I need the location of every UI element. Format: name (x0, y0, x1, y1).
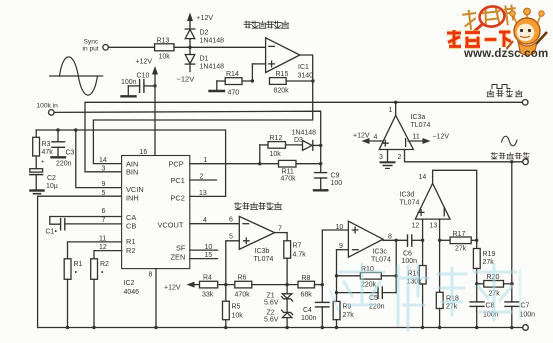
svg-text:R5: R5 (232, 304, 241, 311)
wire R13 to diode node and IC1 inverting input (174, 46, 266, 49)
svg-text:27k: 27k (455, 246, 467, 253)
wire R8 node up to IC3c pin 10 (322, 224, 348, 285)
logo mascot (507, 8, 548, 55)
IC3d pin 12 wire (412, 219, 425, 265)
svg-text:12: 12 (412, 223, 420, 230)
svg-text:C9: C9 (331, 173, 340, 180)
op-amp IC3d TL074 (400, 183, 451, 219)
label 对称方波形成 (235, 203, 282, 210)
svg-text:10k: 10k (159, 54, 171, 61)
square wave glyph (492, 85, 510, 89)
svg-text:1: 1 (204, 157, 208, 164)
logo 找芯片 (top right) (462, 4, 518, 30)
diode D2 1N4148 (185, 29, 224, 47)
label 正弦波输出 (491, 153, 529, 159)
svg-text:470k: 470k (235, 292, 251, 299)
svg-text:C7: C7 (521, 303, 530, 310)
svg-text:R7: R7 (293, 243, 302, 250)
svg-text:PC1: PC1 (171, 176, 185, 185)
svg-text:9: 9 (102, 181, 106, 188)
svg-text:R15: R15 (276, 71, 289, 78)
svg-text:IC1: IC1 (298, 64, 309, 71)
svg-text:INH: INH (126, 193, 139, 202)
svg-text:VCOUT: VCOUT (158, 220, 184, 229)
svg-text:R19: R19 (483, 251, 496, 258)
svg-text:R1: R1 (126, 237, 135, 246)
svg-text:IC3a: IC3a (411, 114, 426, 121)
IC3c output pin 8 wire (383, 234, 407, 243)
svg-text:1: 1 (389, 107, 393, 114)
IC3b pin 5 wire down to R4/R6 node (226, 241, 240, 285)
svg-text:220n: 220n (56, 161, 72, 168)
filter line PC2 to R3/C3 (36, 130, 225, 196)
svg-text:Sync: Sync (84, 39, 99, 46)
svg-text:1N4148: 1N4148 (292, 130, 317, 137)
wire INH down to bottom rail (38, 196, 122, 327)
svg-text:C10: C10 (137, 73, 150, 80)
terminal 100k in (37, 103, 59, 116)
svg-text:SF: SF (176, 243, 186, 252)
terminal Sync input (83, 39, 109, 53)
PC1 stub pin 2 (190, 179, 217, 181)
resistor R12 10k (260, 135, 302, 164)
sine input symbol (50, 57, 103, 95)
square-wave output line (IC3a out / BIN / terminal) (85, 101, 522, 172)
svg-text:7: 7 (278, 226, 282, 233)
svg-text:470: 470 (228, 90, 240, 97)
svg-text:10k: 10k (232, 313, 244, 320)
pin number labels (left side of IC2) (99, 157, 107, 251)
IC3d pin 13 wire (430, 219, 442, 292)
svg-text:5: 5 (229, 234, 233, 241)
resistor R15 820k (270, 71, 315, 95)
+12V supply arrow (top) (187, 13, 213, 40)
svg-text:R1: R1 (74, 261, 83, 268)
svg-text:CB: CB (126, 221, 136, 230)
capacitor C1* on CA/CB (46, 217, 122, 236)
svg-text:C6: C6 (403, 251, 412, 258)
svg-text:13: 13 (430, 223, 438, 230)
svg-text:−12V: −12V (177, 75, 195, 84)
resistor R14 470 (210, 71, 253, 97)
logo 维库一下 (red) (447, 30, 511, 47)
svg-text:100k in: 100k in (37, 103, 59, 110)
wire VCIN to filter node (74, 128, 121, 187)
resistor R13 (155, 38, 174, 61)
svg-text:14: 14 (419, 174, 427, 181)
svg-text:27k: 27k (343, 312, 355, 319)
IC3b output pin 7 wire (275, 226, 288, 241)
svg-text:R14: R14 (226, 71, 239, 78)
svg-text:D3: D3 (294, 137, 303, 144)
svg-text:100n: 100n (301, 315, 317, 322)
svg-text:47k: 47k (42, 149, 54, 156)
IC3d pin 14 loop to R17 right (419, 170, 477, 240)
resistor R8 68k (298, 275, 324, 299)
svg-text:+12V: +12V (353, 133, 370, 140)
op-amp IC3c TL074 (348, 221, 391, 263)
resistor R19 27k (473, 240, 495, 301)
svg-text:PC2: PC2 (171, 193, 185, 202)
terminal square wave output (522, 100, 528, 106)
capacitor C10 100n (121, 73, 155, 97)
svg-text:PCP: PCP (169, 159, 184, 168)
op-amp IC1 3140 (266, 38, 314, 80)
svg-text:100: 100 (331, 180, 343, 187)
svg-text:10μ: 10μ (46, 183, 58, 190)
op-amp IC3b TL074 (229, 216, 275, 263)
svg-text:3140: 3140 (298, 73, 314, 80)
label 输入方波形成 (244, 21, 289, 28)
svg-text:TL074: TL074 (400, 200, 420, 207)
svg-text:R2: R2 (100, 261, 109, 268)
capacitor C7 100n (505, 302, 535, 329)
IC3a pin 2 wire / sine output line (398, 150, 523, 164)
svg-text:4: 4 (203, 217, 207, 224)
IC3a pin 4 +12V arrow (353, 133, 383, 145)
wire sync to R13 (108, 46, 154, 48)
zener Z2 5.6V (264, 299, 293, 329)
resistor R7 4.7k (284, 241, 306, 286)
sine glyph (502, 136, 518, 146)
svg-text:R2: R2 (126, 246, 135, 255)
svg-text:R11: R11 (282, 169, 294, 176)
resistor R17 27k (440, 231, 479, 253)
svg-text:100n: 100n (520, 312, 536, 319)
svg-text:in put: in put (83, 46, 99, 53)
svg-text:8: 8 (149, 272, 153, 279)
svg-text:5: 5 (102, 190, 106, 197)
logo magnifier ring (474, 5, 506, 32)
op-amp IC3a TL074 (379, 102, 430, 149)
svg-text:Z2: Z2 (267, 310, 275, 317)
wire 100k-in line to D3/R11/C9 node (54, 111, 321, 145)
svg-text:R13: R13 (157, 38, 170, 45)
svg-text:C4: C4 (303, 307, 312, 314)
+12V arrow (R4 left) (164, 282, 200, 292)
svg-text:BIN: BIN (126, 168, 138, 177)
resistor R18 27k (436, 292, 459, 329)
wire IC1 output down to BIN feedback line (93, 55, 312, 164)
svg-text:470k: 470k (281, 176, 297, 183)
capacitor C6 100n (402, 235, 423, 265)
svg-text:4046: 4046 (124, 289, 140, 296)
svg-text:−12V: −12V (433, 134, 450, 141)
+12V supply arrow (C10 node) (136, 59, 159, 156)
svg-text:TL074: TL074 (371, 257, 391, 264)
svg-text:6: 6 (102, 208, 106, 215)
watermark cyan text (bottom) (340, 264, 516, 330)
zener Z1 5.6V (264, 285, 293, 307)
VCOUT pin4 wire to IC3b (190, 223, 240, 225)
svg-text:3: 3 (102, 165, 106, 172)
terminal bottom right (523, 325, 529, 331)
svg-text:IC2: IC2 (124, 280, 135, 287)
svg-text:100n: 100n (402, 258, 418, 265)
resistor R9 27k (333, 301, 354, 329)
capacitor C8 100n (470, 302, 499, 329)
svg-text:820k: 820k (274, 88, 290, 95)
capacitor C9 100 (314, 145, 342, 190)
svg-text:68k: 68k (301, 292, 313, 299)
terminal sine wave output (523, 159, 529, 165)
svg-text:11: 11 (413, 134, 420, 141)
svg-text:10: 10 (336, 224, 344, 231)
resistor R4 33k (200, 275, 235, 299)
svg-text:4.7k: 4.7k (293, 252, 307, 259)
IC2 4046 block (122, 149, 190, 296)
sine output vertical to R20/C7 (511, 162, 513, 302)
capacitor C4 100n (301, 285, 329, 330)
resistor R6 470k (235, 275, 299, 299)
wire IC1 + input (251, 64, 266, 83)
svg-text:IC3c: IC3c (373, 249, 388, 256)
svg-text:IC3d: IC3d (400, 192, 415, 199)
svg-text:Z1: Z1 (267, 293, 275, 300)
IC2 pin 8 wire to rail (154, 269, 157, 330)
svg-text:8: 8 (388, 234, 392, 241)
PCP pin1 wire (190, 162, 279, 165)
svg-text:+: + (41, 160, 45, 166)
svg-text:6: 6 (229, 217, 233, 224)
svg-text:+12V: +12V (197, 15, 214, 22)
svg-text:ZEN: ZEN (171, 252, 186, 261)
svg-text:IC3b: IC3b (255, 248, 270, 255)
svg-text:D2: D2 (200, 30, 209, 37)
resistor R2* (91, 251, 122, 330)
svg-text:TL074: TL074 (411, 122, 431, 129)
svg-text:C2: C2 (47, 175, 56, 182)
svg-text:33k: 33k (202, 292, 214, 299)
capacitor C3 220n (52, 128, 75, 167)
IC3a pin 3 ground (379, 150, 395, 169)
bottom rail (38, 327, 523, 329)
svg-text:TL074: TL074 (254, 256, 274, 263)
IC3c pin 9 wire (335, 243, 349, 301)
svg-text:1N4148: 1N4148 (200, 38, 225, 45)
svg-text:13: 13 (199, 190, 207, 197)
capacitor C2 10u (electrolytic) (30, 156, 58, 194)
svg-text:C1•: C1• (46, 229, 58, 236)
svg-text:C3: C3 (66, 150, 75, 157)
svg-text:www.dzsc.com: www.dzsc.com (463, 48, 548, 60)
resistor R1* (64, 242, 121, 329)
svg-text:+12V: +12V (164, 285, 181, 292)
svg-text:16: 16 (140, 149, 148, 156)
svg-text:10k: 10k (270, 151, 282, 158)
svg-text:5.6V: 5.6V (264, 300, 279, 307)
resistor R20 (477, 274, 514, 298)
svg-text:4: 4 (374, 134, 378, 141)
svg-text:R17: R17 (453, 231, 466, 238)
svg-text:100n: 100n (121, 79, 137, 86)
svg-text:5.6V: 5.6V (264, 317, 279, 324)
resistor R16 130k (407, 266, 427, 330)
IC3a pin 11 -12V arrow (408, 134, 449, 145)
svg-text:R12: R12 (270, 135, 283, 142)
svg-text:R8: R8 (302, 275, 311, 282)
resistor R3 47k (33, 130, 54, 156)
svg-text:D1: D1 (200, 56, 209, 63)
resistor R5 10k (223, 285, 244, 330)
svg-text:9: 9 (339, 243, 343, 250)
svg-text:3: 3 (379, 154, 383, 161)
diode D1 1N4148 (185, 47, 224, 71)
svg-text:R3: R3 (42, 141, 51, 148)
svg-text:R4: R4 (203, 275, 212, 282)
svg-text:R6: R6 (238, 275, 247, 282)
diode D3 1N4148 (292, 130, 323, 151)
svg-text:2: 2 (200, 173, 204, 180)
SF stub pin 10 (190, 249, 218, 251)
ZEN stub pin 15 (190, 258, 218, 260)
label 方波输出 (487, 90, 522, 97)
svg-text:14: 14 (99, 157, 107, 164)
svg-text:7: 7 (102, 217, 106, 224)
capacitor C5 220n (337, 240, 397, 310)
svg-text:1N4148: 1N4148 (200, 64, 225, 71)
svg-text:+12V: +12V (136, 59, 153, 66)
resistor R11 470k (279, 160, 323, 182)
svg-text:2: 2 (398, 154, 402, 161)
pin number labels (right side of IC2) (199, 157, 212, 259)
resistor R10 220k (337, 266, 398, 289)
